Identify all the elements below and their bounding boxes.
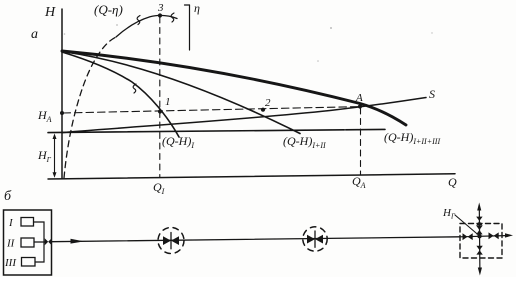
peak point 3 dot (158, 13, 162, 17)
svg-text:(Q-H)I: (Q-H)I (162, 134, 194, 150)
svg-text:II: II (6, 238, 16, 250)
svg-text:(Q-η): (Q-η) (94, 2, 123, 17)
wire pump II to valve (34, 241, 45, 243)
node right valve (489, 232, 499, 239)
distribution node dashed box (460, 224, 502, 259)
svg-text:2: 2 (265, 97, 271, 109)
pump station box (4, 210, 52, 275)
booster pump 1 valve (163, 236, 179, 245)
point A dot (358, 104, 362, 108)
scan speckles (64, 24, 433, 131)
break mark on eta curve left (137, 16, 140, 25)
svg-text:I: I (8, 217, 14, 229)
booster pump 1 dashed circle (158, 228, 184, 254)
eta axis segment (185, 5, 190, 50)
booster pump 1 stem (170, 233, 172, 249)
pump I rect (21, 218, 34, 227)
dashed HA level line (63, 107, 360, 113)
svg-text:(Q-H)I+II: (Q-H)I+II (283, 134, 326, 150)
Hg measure double arrow (53, 134, 57, 178)
wire pump III to bus (35, 242, 44, 262)
pump curve I (62, 52, 179, 137)
svg-text:III: III (4, 257, 17, 269)
pump III rect (22, 258, 36, 267)
pump curve I+II+III (thick) (62, 51, 406, 125)
efficiency curve Q-eta dashed part (64, 37, 116, 178)
node outlet arrow up (477, 203, 481, 211)
system curve S (62, 98, 426, 133)
svg-text:H: H (44, 5, 56, 20)
node bottom valve (476, 246, 482, 255)
Hg leader line (455, 215, 479, 236)
svg-text:Q: Q (448, 175, 457, 189)
svg-text:QA: QA (352, 174, 366, 190)
HA dot on axis (60, 111, 64, 115)
booster pump 2 stem (314, 231, 316, 247)
svg-text:η: η (194, 1, 200, 15)
node top valve lower (476, 226, 482, 235)
efficiency curve Q-eta solid part (116, 15, 177, 37)
node outlet arrow right (505, 233, 513, 237)
node outlet arrow down (478, 268, 482, 276)
dashed vertical at QA (360, 108, 362, 175)
svg-text:(Q-H)I+II+III: (Q-H)I+II+III (384, 130, 440, 146)
booster pump 2 valve (307, 235, 323, 244)
break mark on eta curve right (171, 13, 174, 22)
flow arrow on pipe (71, 239, 85, 244)
Q axis (horizontal) (48, 174, 455, 179)
pump II rect (21, 238, 34, 247)
node top valve upper (476, 217, 482, 226)
break mark on curve I (133, 84, 136, 93)
svg-text:б: б (4, 189, 12, 204)
svg-text:S: S (429, 87, 435, 101)
main pipe (52, 237, 460, 242)
point 2 dot (261, 108, 265, 112)
station outlet valve (45, 238, 52, 245)
node center junction dot (477, 234, 481, 238)
pump curve I+II (62, 52, 300, 134)
booster pump 2 dashed circle (303, 227, 327, 251)
svg-text:HГ: HГ (37, 148, 52, 164)
point 1 dot (158, 109, 162, 113)
node horizontal pipe (460, 236, 505, 237)
svg-text:1: 1 (165, 96, 171, 108)
svg-text:HA: HA (37, 108, 52, 124)
svg-text:HГ: HГ (442, 207, 456, 221)
svg-text:3: 3 (157, 2, 164, 14)
dashed vertical at QI (159, 17, 161, 178)
node left valve (463, 233, 473, 240)
H axis (vertical) (61, 9, 63, 179)
static head line (48, 129, 385, 132)
svg-text:A: A (355, 92, 363, 104)
wire pump I to bus (34, 222, 45, 242)
svg-text:a: a (31, 27, 38, 42)
node vertical pipe (478, 206, 481, 272)
svg-text:QI: QI (153, 180, 165, 196)
